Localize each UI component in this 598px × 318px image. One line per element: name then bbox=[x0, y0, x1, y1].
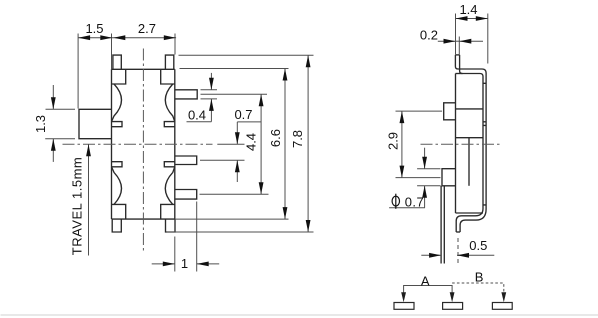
foot tab dashed centerline bbox=[457, 238, 459, 264]
side view horizontal centerline bbox=[421, 143, 503, 145]
arrow 0.4 up bbox=[209, 99, 214, 111]
dimension line 0.2 right bbox=[459, 40, 483, 42]
upper arrow line 0.7 bbox=[236, 122, 238, 144]
svg-text:A: A bbox=[421, 274, 430, 289]
side view dimension texts bbox=[385, 2, 487, 253]
extension pin center (2.9 / phi) bbox=[396, 177, 441, 179]
lower-left inner tab bbox=[112, 162, 123, 167]
extension line body left bbox=[111, 34, 113, 70]
svg-text:0.4: 0.4 bbox=[188, 107, 206, 122]
dimension line 0.2 middle bbox=[456, 40, 460, 42]
arrow 0.7 up bbox=[235, 160, 240, 172]
arrow 1.5 right bbox=[100, 35, 112, 40]
svg-text:1.5: 1.5 bbox=[85, 21, 103, 36]
arrow 1.5 left bbox=[78, 35, 90, 40]
upper-left contact arc bbox=[112, 84, 122, 122]
extension line stem bottom left (1.3) bbox=[45, 138, 75, 140]
arrow 1.4 left bbox=[456, 16, 468, 21]
extension line upper pin top bbox=[201, 89, 218, 91]
arrow 6.6 top bbox=[283, 69, 288, 81]
extension line body top right (6.6) bbox=[180, 68, 289, 70]
svg-text:4.4: 4.4 bbox=[244, 133, 259, 151]
extension line foot bottom right (7.8) bbox=[167, 231, 314, 233]
extension line foot right (1) bbox=[174, 237, 176, 272]
arrow 7.8 bottom bbox=[306, 220, 311, 232]
extension line pin right (1) bbox=[196, 202, 198, 272]
svg-text:2.7: 2.7 bbox=[138, 21, 156, 36]
extension line stem top left (1.3) bbox=[46, 108, 76, 110]
arrow phi0.7 up bbox=[422, 186, 427, 198]
arrow 1.3 up bbox=[51, 139, 56, 151]
bottom-left foot bbox=[112, 219, 121, 232]
arrow 4.4 top bbox=[259, 94, 264, 106]
arrow 2.7 left bbox=[113, 35, 125, 40]
dimension line 7.8 bbox=[307, 55, 309, 232]
pad 2 bbox=[443, 303, 463, 310]
leader 0.7 bbox=[237, 121, 261, 123]
cover outer surface: tab left, shelf top, plate outer bbox=[455, 55, 486, 232]
dimension line 4.4 bbox=[260, 94, 262, 194]
extension line upper pin center (4.4) bbox=[201, 93, 268, 95]
arrow 2.9 up bbox=[400, 111, 405, 123]
pad 1 bbox=[394, 303, 414, 310]
arrow 1 left bbox=[197, 262, 209, 267]
plate stake ticks bbox=[483, 83, 486, 205]
svg-text:B: B bbox=[475, 270, 484, 285]
side body top edge bbox=[456, 73, 463, 75]
extension pin top (phi 0.7) bbox=[417, 168, 440, 170]
bracket B dashed bbox=[452, 283, 504, 297]
arrow 7.8 top bbox=[306, 55, 311, 67]
leader 0.4 bbox=[187, 121, 212, 123]
dimension line 1 left part bbox=[152, 263, 175, 265]
front view body outline bbox=[79, 55, 197, 232]
top-right tab bbox=[165, 55, 173, 69]
lower-right contact arc bbox=[165, 167, 175, 205]
upper-right contact arc bbox=[165, 84, 175, 122]
svg-text:2.9: 2.9 bbox=[385, 132, 400, 150]
dimension line 1.5 / 2.7 bbox=[78, 37, 176, 39]
leader phi0.7 bbox=[389, 207, 425, 209]
dimension line 6.6 bbox=[284, 69, 286, 220]
bottom-left inner step bbox=[112, 204, 126, 219]
extension tab left up (1.4/0.2) bbox=[455, 14, 457, 55]
dimension line 0.2 left bbox=[438, 40, 456, 42]
extension plate outer up (1.4) bbox=[487, 14, 489, 64]
side view outline bbox=[441, 55, 486, 264]
horizontal centerline of front view bbox=[63, 143, 213, 145]
dimension line 1 right part bbox=[197, 263, 220, 265]
svg-text:1.4: 1.4 bbox=[459, 2, 477, 17]
extension line lower pin center (4.4) bbox=[200, 193, 269, 195]
upper-left inner tab bbox=[112, 122, 123, 127]
lower right pin bbox=[175, 190, 197, 200]
arrow 1 right bbox=[163, 262, 175, 267]
extension line tab top right (7.8) bbox=[179, 54, 314, 56]
arrow 0.2 left bbox=[444, 39, 456, 44]
body left wall bbox=[111, 69, 113, 219]
body right wall bbox=[174, 69, 176, 219]
cover inner surface: tab right, shelf bottom, plate inner bbox=[456, 55, 483, 232]
arrow 2.7 right bbox=[164, 35, 176, 40]
side stem box bbox=[444, 103, 456, 120]
side body inner vertical bbox=[468, 138, 470, 186]
extension stem center (2.9) bbox=[396, 110, 443, 112]
top-left inner step bbox=[112, 69, 126, 84]
svg-text:6.6: 6.6 bbox=[268, 129, 283, 147]
top-right inner step bbox=[161, 69, 175, 84]
side view extension + dimension lines bbox=[389, 14, 494, 256]
arrow 0.5 left bbox=[457, 253, 469, 258]
extension line center (0.7) bbox=[217, 143, 244, 145]
arrow 0.2 right bbox=[459, 39, 471, 44]
body top edge bbox=[112, 68, 175, 70]
bracket A bbox=[404, 286, 453, 297]
arrow A right pad bbox=[450, 292, 455, 302]
dimension line 1.4 bbox=[456, 18, 488, 20]
extension line upper pin bottom bbox=[201, 98, 218, 100]
side body mid inner line bbox=[456, 137, 484, 139]
svg-text:1.3: 1.3 bbox=[33, 115, 48, 133]
arrow B pad bbox=[501, 292, 506, 302]
travel arrow up bbox=[86, 144, 91, 156]
lower arrow line 1.3 bbox=[52, 139, 54, 162]
arrow 0.5 right bbox=[429, 253, 441, 258]
svg-text:0.5: 0.5 bbox=[469, 238, 487, 253]
svg-text:1: 1 bbox=[181, 256, 188, 271]
side body bottom edge bbox=[456, 212, 484, 214]
pin wire right edge bbox=[443, 186, 445, 264]
lower arrow line 0.7 bbox=[236, 160, 238, 182]
left stem (actuator) bbox=[79, 109, 112, 138]
extension tab right up (0.2) bbox=[458, 37, 460, 55]
extension line body right top bbox=[174, 34, 176, 55]
svg-text:0.2: 0.2 bbox=[420, 27, 438, 42]
middle right pin bbox=[175, 156, 197, 165]
foot tab bottom bbox=[456, 231, 460, 233]
travel arrow line bbox=[88, 144, 90, 255]
bottom-right inner step bbox=[161, 204, 175, 219]
upper arrow line 0.4 bbox=[210, 73, 212, 90]
dimension line 0.5 right bbox=[457, 254, 494, 256]
extension pin bottom (phi 0.7) bbox=[417, 185, 440, 187]
dimension texts front view bbox=[33, 21, 305, 271]
pad 3 bbox=[492, 303, 512, 310]
dimension line 2.9 bbox=[401, 111, 403, 178]
bottom-right foot bbox=[166, 219, 176, 232]
lower-left contact arc bbox=[112, 167, 122, 205]
side body top inner line bbox=[456, 108, 484, 110]
extension + dimension lines of front view bbox=[45, 34, 313, 272]
vertical centerline of front view bbox=[142, 49, 144, 252]
body bottom edge bbox=[112, 218, 175, 220]
arrow phi0.7 down bbox=[422, 157, 427, 169]
upper arrow line 1.3 bbox=[52, 85, 54, 109]
side view arrowheads bbox=[400, 16, 488, 258]
extension line stem left bbox=[77, 34, 79, 109]
svg-text:TRAVEL 1.5mm: TRAVEL 1.5mm bbox=[70, 157, 85, 255]
upper arrow line phi0.7 bbox=[424, 148, 426, 169]
top tab cap bbox=[455, 54, 459, 56]
extension line middle pin center (0.7) bbox=[200, 159, 245, 161]
side body left edge bbox=[455, 74, 457, 214]
arrow 0.4 down bbox=[209, 78, 214, 90]
label phi0.7 bbox=[392, 196, 399, 206]
arrowheads of front view bbox=[51, 35, 311, 266]
arrow 1.4 right bbox=[476, 16, 488, 21]
lower-right inner tab bbox=[164, 162, 175, 167]
lower arrow line phi0.7 bbox=[424, 186, 426, 208]
upper right pin bbox=[175, 90, 197, 99]
pin wire left edge bbox=[440, 186, 442, 264]
bottom page rule bbox=[1, 314, 598, 316]
arrow 2.9 down bbox=[400, 166, 405, 178]
svg-text:0.7: 0.7 bbox=[234, 107, 252, 122]
svg-text:7.8: 7.8 bbox=[290, 130, 305, 148]
arrow 0.7 down bbox=[235, 132, 240, 144]
arrow A left pad bbox=[401, 292, 406, 302]
extension line body bottom right (6.6) bbox=[175, 218, 289, 220]
svg-text:0.7: 0.7 bbox=[405, 195, 425, 210]
lower arrow line 0.4 bbox=[210, 99, 212, 122]
upper-right inner tab bbox=[164, 122, 175, 127]
side pin box bbox=[442, 169, 456, 186]
arrow 1.3 down bbox=[51, 97, 56, 109]
arrow 4.4 bottom bbox=[259, 182, 264, 194]
arrow 6.6 bottom bbox=[283, 207, 288, 219]
top-left tab bbox=[113, 55, 121, 69]
dimension line 0.5 left bbox=[421, 254, 441, 256]
